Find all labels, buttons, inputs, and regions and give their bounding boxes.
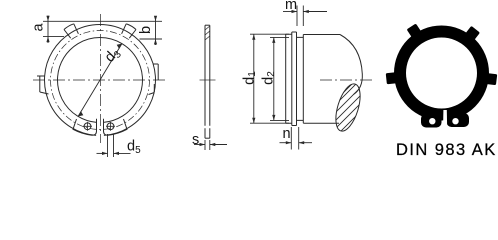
svg-text:a: a	[30, 23, 46, 32]
label d3	[102, 44, 124, 66]
svg-text:d1: d1	[241, 71, 257, 85]
svg-text:s: s	[192, 132, 199, 148]
dim d5	[97, 134, 131, 157]
left end lug with hole	[73, 119, 97, 136]
lug at 3 o'clock	[149, 64, 159, 95]
dim d1	[250, 34, 289, 123]
dim b + shared top extension line	[43, 17, 162, 46]
tabs	[484, 73, 498, 85]
break ellipse with hatch	[320, 70, 384, 144]
shaft centerline	[320, 79, 372, 81]
centerline vertical	[100, 14, 102, 143]
svg-text:n: n	[283, 126, 291, 142]
gap slit	[443, 110, 447, 131]
ring installed	[292, 32, 297, 126]
lug at 1 o'clock	[122, 24, 136, 38]
dim a	[43, 16, 64, 44]
dim s	[194, 140, 227, 150]
svg-text:d3: d3	[102, 44, 124, 66]
end lugs	[421, 114, 442, 128]
lug at 9 o'clock	[37, 76, 49, 94]
ring front view: outer circle (gap at bottom)	[45, 25, 156, 136]
dim m	[283, 6, 327, 27]
dim d2	[270, 37, 289, 120]
ring front view: inner circle (gap at bottom)	[58, 37, 143, 122]
dim n	[280, 127, 313, 150]
svg-text:b: b	[138, 26, 154, 34]
side view centerline tick	[200, 79, 216, 81]
centerline horizontal	[33, 79, 168, 81]
band: annulus with gap at bottom	[394, 26, 489, 121]
icon: DIN 983 circlip silhouette	[386, 23, 498, 127]
svg-text:d5: d5	[127, 139, 141, 157]
ring side view (lone)	[205, 25, 210, 138]
right end lug with hole	[104, 119, 128, 136]
dome end	[340, 35, 362, 95]
pitch circle (dash-dot)	[51, 31, 150, 130]
dim d3 (diagonal)	[78, 44, 122, 117]
svg-text:m: m	[285, 0, 297, 13]
caption DIN 983 AK	[396, 141, 497, 160]
shaft	[286, 34, 363, 123]
svg-text:d2: d2	[260, 71, 276, 85]
lug at 11 o'clock	[64, 24, 78, 38]
